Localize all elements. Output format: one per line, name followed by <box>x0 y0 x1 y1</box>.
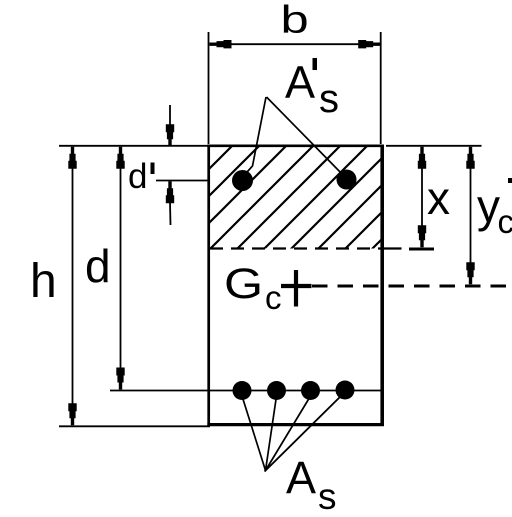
svg-text:c: c <box>498 203 512 240</box>
label G <box>224 259 263 307</box>
top extension line right of section <box>386 145 482 147</box>
label b <box>281 0 309 42</box>
bottom rebar dot 4 <box>336 381 355 400</box>
dimension d' lower line <box>169 202 172 225</box>
hatched compression zone <box>210 147 381 249</box>
svg-text:d: d <box>85 240 111 292</box>
svg-text:b: b <box>281 0 309 42</box>
neutral axis extension dash <box>384 247 402 249</box>
top rebar left dot <box>232 170 253 191</box>
beam section outline top edge <box>207 144 383 147</box>
x arrow bottom <box>418 225 426 247</box>
dimension d' upper line <box>169 105 171 125</box>
h arrow bottom <box>68 403 76 425</box>
svg-text:h: h <box>30 255 57 308</box>
svg-text:s: s <box>319 77 339 121</box>
bottom rebar dot 1 <box>233 381 252 400</box>
tick under x arrow <box>409 248 434 251</box>
x arrow top <box>418 147 426 169</box>
svg-text:A: A <box>286 452 316 503</box>
beam section outline bottom edge <box>207 423 383 426</box>
top rebar level extension line <box>156 180 208 182</box>
d arrow top <box>116 147 124 169</box>
neutral axis dashed line (bottom of hatch) <box>210 247 381 249</box>
dimension b line <box>211 43 379 45</box>
svg-text:c: c <box>265 279 282 316</box>
d' arrow upper pointing down <box>166 124 174 146</box>
leader line from A's to left top dot <box>244 97 267 176</box>
apostrophe of A's <box>313 58 318 70</box>
svg-text:A: A <box>285 57 315 108</box>
leader line As to dot 3 <box>266 396 311 471</box>
top extension line left of section <box>59 145 208 147</box>
dimension d line <box>120 148 122 388</box>
h arrow top <box>68 147 76 169</box>
beam section outline left edge <box>207 145 210 427</box>
leader line As to dot 1 <box>242 396 266 471</box>
svg-text:G: G <box>224 259 263 307</box>
top rebar right dot <box>337 170 357 190</box>
dimension x line <box>421 148 423 246</box>
leader line As to dot 4 <box>265 392 346 472</box>
h bottom extension line <box>59 425 210 427</box>
d' arrow lower pointing up <box>166 181 174 203</box>
stray mark right edge <box>508 178 512 183</box>
bottom rebar dot 2 <box>267 381 286 400</box>
b arrow left <box>210 40 232 48</box>
d arrow bottom <box>116 368 124 390</box>
centroid dashed line <box>312 285 512 288</box>
leader line As to dot 2 <box>266 396 277 471</box>
yc arrow top <box>466 147 474 169</box>
leader line from A's to right top dot <box>267 97 346 177</box>
svg-text:d: d <box>128 157 147 196</box>
bottom rebar dot 3 <box>301 381 320 400</box>
beam section outline right edge <box>380 145 384 427</box>
b extension line left <box>208 32 210 144</box>
yc arrow bottom <box>466 262 474 284</box>
svg-text:x: x <box>427 172 450 224</box>
svg-text:s: s <box>318 476 337 512</box>
bottom rebar line <box>110 390 381 392</box>
b arrow right <box>358 40 380 48</box>
dimension yc line <box>470 148 472 283</box>
b extension line right <box>380 32 382 144</box>
apostrophe of d' <box>151 163 155 175</box>
centroid cross <box>281 270 312 307</box>
dimension h line <box>72 148 74 424</box>
